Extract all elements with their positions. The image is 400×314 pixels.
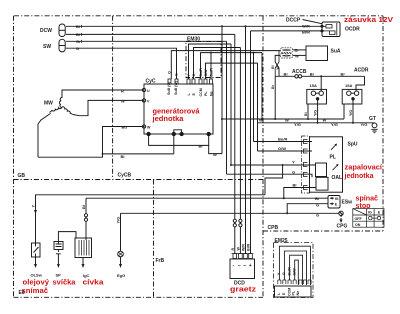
svg-text:Y: Y — [30, 205, 35, 208]
EM25 pin row — [278, 280, 311, 284]
svg-text:Y/G: Y/G — [331, 122, 338, 127]
bundle vertical A Bl to W line — [221, 26, 223, 153]
svg-text:Bl: Bl — [76, 24, 80, 29]
svg-text:W: W — [276, 66, 280, 70]
frame bottom border — [14, 296, 264, 298]
svg-text:SuA: SuA — [331, 49, 341, 55]
wire GW to SpU — [258, 150, 313, 152]
svg-text:Y/G: Y/G — [294, 122, 301, 127]
svg-text:Br: Br — [310, 72, 315, 77]
wire SuB left drop to ACCB — [275, 55, 280, 76]
table ESw states — [353, 209, 384, 228]
wire W to SuA — [293, 54, 306, 56]
svg-text:Bl: Bl — [315, 196, 319, 201]
svg-text:Y/G: Y/G — [349, 110, 353, 116]
svg-text:SuB (W): SuB (W) — [174, 80, 178, 95]
svg-text:W/R: W/R — [302, 24, 310, 29]
svg-text:SW: SW — [43, 44, 51, 50]
svg-text:O: O — [167, 71, 171, 74]
box DCD graetz — [230, 259, 255, 279]
pin bottom 2 — [172, 132, 175, 135]
wire MW left branch to Bl — [38, 113, 51, 157]
svg-text:GB: GB — [18, 173, 26, 179]
wire Bl/R DCCP — [251, 30, 323, 32]
svg-text:R: R — [121, 88, 124, 93]
svg-text:Y: Y — [292, 160, 295, 165]
svg-text:Bl: Bl — [81, 205, 86, 209]
svg-text:Bl: Bl — [76, 32, 80, 37]
svg-text:IG: IG — [335, 197, 339, 201]
svg-text:generátorová: generátorová — [153, 109, 200, 116]
svg-text:Bl: Bl — [304, 112, 308, 116]
DCD pin row — [232, 253, 254, 255]
svg-text:OLSw: OLSw — [31, 273, 43, 278]
svg-text:Ne: Ne — [210, 91, 214, 96]
wire Y long run OLSw — [36, 195, 266, 243]
svg-text:W/R: W/R — [242, 244, 246, 251]
svg-text:ON: ON — [355, 223, 361, 227]
wire ACCB Br line — [275, 75, 364, 77]
svg-text:Y/G: Y/G — [115, 217, 120, 224]
svg-text:~: ~ — [243, 264, 246, 270]
wire ACCB drop to fuse — [320, 76, 322, 90]
svg-text:G/W: G/W — [204, 69, 208, 77]
connector DCCP/OCDR — [322, 22, 340, 37]
svg-text:Bu/R: Bu/R — [210, 68, 214, 77]
frame divider x=153.5 — [153, 180, 155, 298]
svg-text:CCM: CCM — [199, 88, 203, 96]
wire Br drop below ACCB — [274, 76, 276, 119]
wire G SW to CyC pin — [66, 48, 177, 79]
svg-text:U: U — [147, 89, 150, 93]
frame divider x=112.6 — [112, 16, 114, 180]
wire Gr SW — [66, 40, 227, 42]
oil switch OLSw — [32, 243, 41, 257]
fuse holder ACDR 15A — [342, 89, 362, 104]
bundle vertical F to DCD — [250, 31, 252, 254]
svg-text:Bu/R: Bu/R — [288, 267, 292, 276]
svg-text:SuB (G): SuB (G) — [167, 81, 171, 95]
wire Bu riser — [103, 127, 145, 154]
wire W MW to CyC — [73, 100, 144, 115]
EM30 wire GW — [206, 63, 258, 79]
svg-text:zapalovací: zapalovací — [345, 165, 384, 172]
connector SuB pair — [281, 48, 293, 53]
svg-text:W: W — [295, 53, 299, 58]
ignition coil IgC — [75, 238, 92, 258]
svg-text:W: W — [259, 118, 263, 123]
EM30 wire Y — [189, 44, 232, 79]
frame divider y=179.5 — [14, 179, 264, 181]
svg-text:CPB: CPB — [268, 225, 279, 231]
wire EgG riser — [120, 213, 122, 251]
fuse holder ACCB 15A — [307, 89, 327, 104]
jumper hump — [174, 130, 182, 133]
svg-text:Bu: Bu — [122, 125, 128, 130]
svg-text:svíčka: svíčka — [53, 280, 76, 287]
pin bottom 3 — [180, 132, 183, 135]
svg-text:Bl: Bl — [293, 183, 297, 188]
box SpU ignition unit — [310, 137, 343, 192]
EM30 wire G — [194, 48, 241, 80]
svg-text:Y/G: Y/G — [313, 110, 317, 116]
svg-text:Bl/R: Bl/R — [302, 29, 310, 34]
svg-text:graetz: graetz — [230, 287, 257, 294]
svg-text:G: G — [316, 212, 319, 217]
svg-text:DCCP: DCCP — [286, 18, 301, 24]
svg-text:snímač: snímač — [22, 288, 49, 295]
svg-text:Br: Br — [284, 72, 289, 77]
frame divider x=263 — [262, 16, 264, 298]
svg-text:W: W — [121, 99, 125, 104]
EM25 loop 3 — [290, 255, 303, 285]
svg-text:jednotka: jednotka — [343, 173, 373, 180]
svg-text:Bl/R: Bl/R — [247, 243, 251, 251]
pin V — [142, 99, 145, 102]
svg-text:OCDR: OCDR — [345, 27, 360, 33]
svg-text:Bl: Bl — [271, 65, 275, 69]
svg-text:EM30: EM30 — [187, 37, 200, 43]
svg-text:Bu/R: Bu/R — [278, 137, 287, 142]
svg-text:Gr: Gr — [76, 39, 81, 44]
wire Bl run — [38, 154, 174, 157]
svg-text:G: G — [174, 73, 178, 76]
arrow on OLSw wire — [34, 210, 37, 214]
svg-text:~: ~ — [238, 264, 241, 270]
connector DCW — [59, 24, 65, 37]
wire BuR to SpU — [254, 141, 313, 143]
svg-text:MW: MW — [44, 101, 53, 107]
svg-text:G: G — [292, 170, 295, 175]
wire SuB W run — [171, 51, 280, 79]
wire Bl DCW second — [66, 33, 235, 35]
bundle vertical C to DCD — [234, 34, 236, 253]
svg-text:W: W — [213, 152, 217, 157]
inline connector DCD wire2 — [239, 219, 242, 222]
box OAL inner1 — [316, 163, 327, 177]
switch ESw — [328, 196, 340, 209]
ground GT — [372, 123, 377, 128]
svg-text:W: W — [237, 247, 241, 251]
bundle vertical G BuR feed — [253, 53, 255, 142]
svg-text:CyCB: CyCB — [118, 173, 132, 179]
svg-text:15A: 15A — [345, 83, 352, 88]
inline connector ACCB — [295, 75, 298, 78]
wire W feed line — [222, 118, 344, 120]
wire G long run EgG — [121, 212, 339, 214]
EM25 loop 4 — [295, 260, 299, 285]
box CyC generator unit — [144, 84, 213, 134]
wire G to SpU — [227, 174, 313, 177]
bundle vertical B Gr to G line — [226, 41, 228, 174]
svg-text:CyC: CyC — [146, 79, 156, 85]
wire Y zigzag to SpU — [265, 165, 283, 195]
pin W — [142, 125, 145, 128]
EM25 loop 1 — [279, 246, 310, 285]
svg-text:PL: PL — [330, 155, 336, 161]
box SuA — [306, 46, 328, 61]
svg-text:G: G — [192, 74, 196, 77]
inline connector DCD wire1 — [233, 219, 236, 222]
wire Br to SuA — [293, 49, 306, 51]
svg-text:EM25: EM25 — [275, 238, 288, 244]
wire Bl DCW to DCCP W/R — [66, 25, 322, 27]
svg-text:SpU: SpU — [348, 142, 358, 148]
svg-text:IG: IG — [368, 211, 372, 215]
svg-text:G/W: G/W — [293, 268, 297, 276]
svg-text:15A: 15A — [310, 83, 317, 88]
bundle vertical H GW feed — [257, 63, 259, 151]
wire Y to SpU — [231, 164, 316, 166]
wire CyC pin2 drop — [173, 134, 175, 154]
svg-text:+: + — [249, 263, 252, 269]
wire G branch to ESw — [287, 204, 328, 214]
svg-text:Br: Br — [199, 144, 204, 149]
terminal CPG — [339, 211, 343, 215]
svg-text:W: W — [323, 118, 327, 123]
svg-text:Y/G: Y/G — [361, 122, 368, 127]
svg-text:ACCB: ACCB — [292, 69, 307, 75]
svg-text:olejový: olejový — [23, 280, 50, 287]
connector SW — [59, 39, 65, 52]
svg-text:FrB: FrB — [156, 258, 165, 264]
svg-text:G: G — [282, 272, 286, 275]
connector strip SpU — [302, 136, 310, 193]
wire Bl to SpU — [284, 188, 316, 199]
svg-text:GT: GT — [369, 116, 376, 122]
svg-text:ACDR: ACDR — [354, 68, 369, 74]
svg-text:zásuvka 12V: zásuvka 12V — [344, 17, 393, 24]
EM25 loop 2 — [284, 251, 306, 285]
arrow OAL — [333, 164, 339, 170]
frame left border — [13, 16, 15, 298]
box PL — [331, 144, 337, 150]
wire fuse left pin drop ACDR — [343, 104, 345, 119]
svg-text:Br: Br — [341, 71, 346, 76]
svg-text:G: G — [316, 203, 319, 208]
frame top border — [14, 15, 383, 17]
CyC top pins — [168, 79, 213, 84]
magneto MW — [59, 96, 62, 108]
wire ticks — [81, 25, 83, 43]
svg-text:W: W — [147, 126, 151, 130]
svg-text:W: W — [285, 118, 289, 123]
frame right border x=383 — [382, 16, 384, 231]
svg-text:spínač: spínač — [356, 196, 379, 203]
engine ground EgG — [118, 251, 124, 257]
bundle vertical D to DCD — [239, 48, 241, 254]
wire IgC riser — [85, 198, 87, 240]
wire Br link — [149, 134, 209, 145]
svg-text:Br: Br — [295, 48, 300, 53]
wire YG bus — [258, 122, 375, 124]
leader line DCCP — [303, 20, 323, 24]
svg-text:cívka: cívka — [83, 280, 104, 287]
wire Bl long run IgC — [86, 197, 328, 199]
svg-text:EgG: EgG — [117, 273, 125, 278]
connector EM30 box — [186, 42, 221, 78]
connector EM25 box — [274, 243, 314, 298]
svg-text:OAL: OAL — [332, 175, 343, 181]
svg-text:R: R — [231, 248, 235, 251]
bundle vertical Y line feed — [230, 44, 232, 165]
svg-text:-: - — [233, 263, 235, 269]
svg-text:DCW: DCW — [40, 28, 52, 34]
svg-text:Bu/R: Bu/R — [199, 68, 203, 77]
pin bottom 4 — [207, 132, 210, 135]
wire SuB crossover — [275, 51, 280, 77]
wire fuse left pin drop ACCB — [307, 104, 309, 119]
frame CP bottom border y=231 — [263, 230, 383, 232]
EM30 wire BuR2 — [210, 53, 212, 79]
EM25 housing — [275, 286, 312, 297]
svg-text:ESw: ESw — [342, 200, 353, 206]
wire W jog from CyC — [209, 145, 222, 153]
svg-text:G: G — [76, 46, 79, 51]
svg-text:PL: PL — [204, 91, 208, 96]
svg-text:stop: stop — [356, 203, 371, 210]
spark plug SP — [58, 232, 76, 244]
svg-text:IgC: IgC — [83, 273, 90, 278]
svg-text:Ne: Ne — [296, 291, 300, 296]
svg-text:G/W: G/W — [278, 146, 286, 151]
pin bottom 1 — [147, 132, 150, 135]
svg-text:OFF: OFF — [355, 217, 363, 221]
svg-text:SP: SP — [56, 273, 62, 278]
bundle vertical E to DCD — [245, 26, 247, 253]
svg-text:jednotka: jednotka — [151, 116, 183, 123]
wire R MW to CyC — [62, 90, 144, 96]
svg-text:Br: Br — [271, 84, 275, 89]
box OAL inner2 — [316, 177, 328, 190]
svg-text:CPG: CPG — [337, 224, 348, 230]
wire ACDR drop to fuse — [356, 76, 365, 90]
pin U — [142, 88, 145, 91]
bundle vertical I W feed — [261, 53, 263, 119]
EM30 wire BuR — [201, 53, 263, 79]
svg-text:Bl: Bl — [121, 154, 125, 159]
